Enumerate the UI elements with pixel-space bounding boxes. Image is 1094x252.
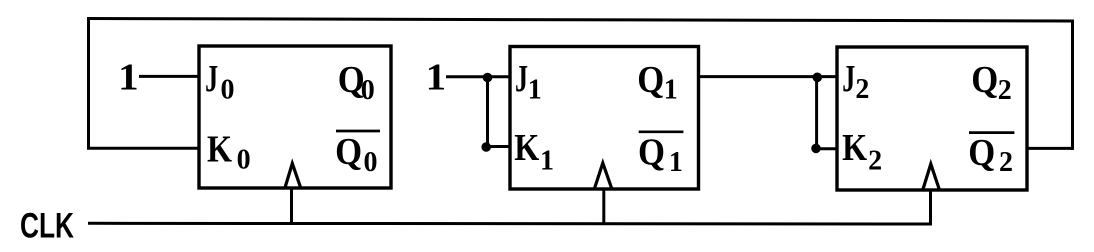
wire: clock vertical U0	[290, 187, 293, 223]
wire: clock vertical U1	[602, 189, 605, 224]
junction dot K2	[811, 144, 821, 154]
clock caret U2	[923, 164, 939, 190]
svg-text:2: 2	[868, 146, 882, 177]
svg-text:J: J	[842, 58, 855, 100]
wire: Q2bar output to feedback	[1026, 147, 1073, 150]
svg-text:Q: Q	[971, 59, 998, 101]
wire: feedback right vertical	[1071, 20, 1074, 150]
flip-flop U2 box	[837, 47, 1027, 190]
svg-text:K: K	[514, 127, 539, 169]
pin label Q0bar overline	[336, 130, 380, 133]
svg-text:Q: Q	[968, 132, 995, 174]
svg-text:1: 1	[669, 147, 683, 178]
svg-text:0: 0	[237, 144, 251, 175]
svg-text:1: 1	[426, 57, 447, 99]
junction dot J2	[813, 73, 823, 83]
svg-text:K: K	[842, 127, 867, 169]
pin label Q2bar overline	[969, 131, 1014, 134]
svg-text:2: 2	[855, 74, 869, 105]
flip-flop U1 box	[510, 47, 699, 190]
svg-text:J: J	[205, 58, 218, 100]
svg-text:Q: Q	[638, 131, 665, 173]
wire: junction vertical J2-K2	[815, 77, 818, 149]
wire: clock vertical to U2	[929, 190, 932, 225]
svg-text:1: 1	[540, 146, 554, 177]
wire: Q1 output to J2 junction	[697, 75, 839, 78]
svg-text:0: 0	[221, 74, 235, 105]
wire: K1 input	[486, 145, 512, 148]
junction dot K1	[481, 142, 491, 152]
svg-text:2: 2	[998, 75, 1012, 106]
wire: K0 input horizontal	[87, 147, 201, 150]
clock caret U0	[285, 164, 300, 188]
wire: 1 to J1 junction	[446, 75, 512, 78]
svg-text:Q: Q	[637, 59, 664, 101]
junction dot J1	[483, 73, 493, 83]
svg-text:CLK: CLK	[20, 207, 74, 246]
svg-text:K: K	[207, 129, 232, 171]
svg-text:2: 2	[999, 147, 1013, 178]
svg-text:0: 0	[361, 75, 375, 106]
svg-text:1: 1	[118, 57, 139, 99]
svg-text:Q: Q	[335, 131, 362, 173]
wire: junction vertical J1-K1	[486, 77, 489, 147]
wire: feedback left vertical	[87, 18, 90, 149]
pin label Q1bar overline	[639, 130, 684, 133]
wire: feedback top horizontal from Q2bar to K0	[87, 19, 1074, 22]
wire: K2 input	[816, 147, 839, 150]
svg-text:0: 0	[364, 147, 378, 178]
wire: CLK horizontal	[88, 222, 932, 226]
svg-text:J: J	[515, 58, 528, 100]
svg-text:1: 1	[664, 75, 678, 106]
clock caret U1	[595, 163, 612, 189]
svg-text:1: 1	[528, 74, 542, 105]
flip-flop U0 box	[199, 46, 391, 188]
wire: 1 to J0	[139, 75, 201, 78]
